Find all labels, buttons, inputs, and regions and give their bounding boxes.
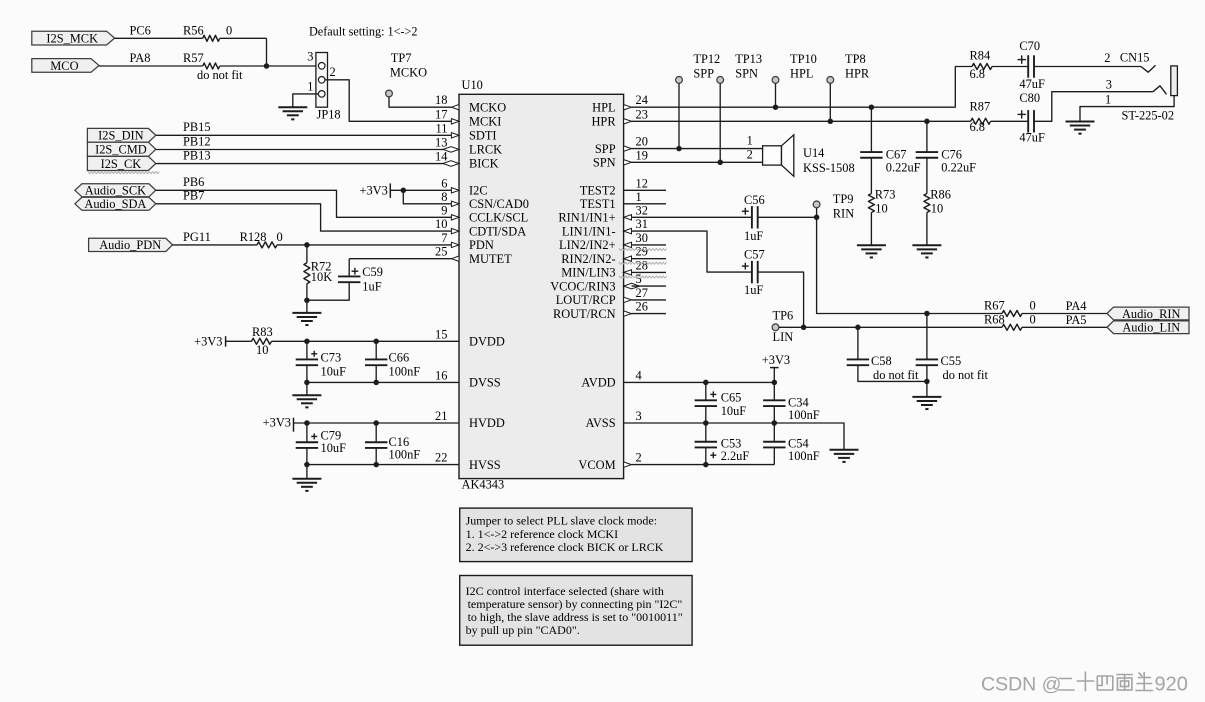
svg-text:HPR: HPR [591,115,616,129]
svg-text:CSDN @: CSDN @ [981,674,1061,696]
svg-text:+3V3: +3V3 [194,335,222,349]
svg-text:MCKI: MCKI [469,115,501,129]
test point TP10 [772,52,817,84]
svg-text:U10: U10 [462,78,483,92]
junction DVSS/C66 [373,380,379,386]
svg-text:by pull up pin "CAD0".: by pull up pin "CAD0". [466,623,580,637]
stub wire pin 1 [624,203,666,205]
wire +3V3 to R83 [226,340,252,342]
pin 26 ROUT/RCN [624,300,648,317]
wire PB13 [156,149,452,164]
svg-text:LIN1/IN1-: LIN1/IN1- [562,224,616,238]
svg-text:LIN: LIN [773,330,794,344]
junction AVDD/C34 [772,380,778,386]
net flag I2S_CK [87,156,155,170]
JP18 pin 2 label [330,65,336,79]
svg-text:HPR: HPR [845,66,870,80]
svg-text:MUTET: MUTET [469,252,512,266]
capacitor C57 [742,248,765,297]
svg-text:+3V3: +3V3 [263,416,291,430]
resistor R83 [252,325,273,357]
svg-text:ROUT/RCN: ROUT/RCN [553,307,616,321]
svg-text:MCO: MCO [50,59,78,73]
svg-text:SDTI: SDTI [469,129,497,143]
resistor R72 [304,260,332,284]
svg-text:TEST2: TEST2 [580,184,616,198]
svg-text:10: 10 [256,343,268,357]
wire R84 to C70 [992,66,1028,68]
pin 11 SDTI [435,121,459,138]
svg-text:18: 18 [435,93,447,107]
net flag Audio_SDA [75,197,156,211]
wire PC6 [115,37,203,39]
svg-text:R67: R67 [984,298,1005,312]
svg-text:TEST1: TEST1 [580,197,616,211]
svg-text:PC6: PC6 [130,23,151,37]
svg-text:47uF: 47uF [1019,130,1045,144]
svg-text:2: 2 [636,451,642,465]
junction DVDD/C73 [304,339,310,345]
svg-text:Audio_LIN: Audio_LIN [1122,321,1180,335]
capacitor C79 [296,423,346,465]
power +3V3 R83 [194,335,225,349]
junction VCOM/C53 [703,462,709,468]
wire LIN net [779,326,1002,328]
wire R73 to ground [870,213,872,246]
svg-text:Audio_RIN: Audio_RIN [1122,307,1181,321]
wire PB12 [156,134,452,149]
junction HPL/TP10 [773,104,779,110]
test point TP9 [813,192,854,220]
svg-text:MCKO: MCKO [390,66,427,80]
wire TP7 to U10 MCKO [389,97,451,107]
wire MUTET pin25 [349,258,451,260]
svg-text:Default setting: 1<->2: Default setting: 1<->2 [309,25,418,39]
svg-text:TP13: TP13 [735,52,762,66]
wire SPP to speaker [632,148,763,150]
svg-text:32: 32 [636,203,648,217]
label CN15 pin3 [1106,78,1112,92]
svg-text:1: 1 [1105,93,1111,107]
svg-text:PB6: PB6 [183,175,204,189]
svg-text:R68: R68 [984,312,1005,326]
pin 20 SPP [624,135,648,152]
wire R128 to PDN pin7 [277,244,451,246]
svg-text:2: 2 [1104,51,1110,65]
stub wire pin 26 [632,313,667,315]
svg-text:TP6: TP6 [773,309,794,323]
svg-text:+3V3: +3V3 [762,353,790,367]
junction LIN/C57 [801,325,807,331]
pin 16 DVSS [435,368,447,382]
resistor R128 [240,230,283,248]
svg-text:0: 0 [226,24,232,38]
pin 14 BICK [435,150,459,167]
test point TP6 [772,309,793,344]
svg-text:14: 14 [435,150,447,164]
ground AVSS [830,450,859,462]
no-connect squiggle pin 29 [619,262,667,264]
svg-text:10uF: 10uF [321,441,347,455]
pin 19 SPN [624,148,648,165]
wire HPR net [632,120,971,122]
capacitor C58 [847,327,927,382]
test point TP12 [676,52,721,84]
pin 7 PDN [441,231,459,248]
ground DVSS [292,395,321,407]
svg-text:25: 25 [435,245,447,259]
wire PDN junction down [306,245,308,263]
wire AVDD pin4 [624,381,775,383]
wire PG11 [173,230,258,245]
svg-text:9: 9 [441,203,447,217]
svg-text:PA5: PA5 [1066,313,1087,327]
pin 24 HPL [624,93,648,110]
svg-text:HVDD: HVDD [469,416,505,430]
resistor R67 [984,298,1036,316]
svg-text:TP7: TP7 [391,51,412,65]
power +3V3 HVDD [263,416,294,432]
svg-text:CN15: CN15 [1120,50,1150,64]
svg-text:Audio_SDA: Audio_SDA [84,197,146,211]
svg-text:PA4: PA4 [1066,299,1087,313]
svg-text:10: 10 [875,202,887,216]
wire R86 to ground [926,213,928,246]
pin 4 AVDD [636,368,642,382]
no-connect squiggle pin 28 [619,276,667,278]
wire JP18 pin1 to ground [293,94,319,107]
junction R56/R57 [264,63,270,69]
wire R87 to C80 [991,120,1028,122]
svg-text:R128: R128 [240,230,267,244]
svg-text:100nF: 100nF [788,449,820,463]
svg-text:C59: C59 [362,265,383,279]
junction DVSS/C73 [304,380,310,386]
svg-text:24: 24 [636,93,648,107]
resistor R56 [183,24,232,42]
svg-text:C55: C55 [941,354,962,368]
wire HVDD pin21 [294,422,460,424]
net flag Audio_LIN [1107,321,1189,335]
svg-text:5: 5 [636,272,642,286]
ground R86 [912,245,941,257]
net flag I2S_CMD [87,142,155,156]
wire C57 down to LIN [758,272,804,327]
svg-text:do not fit: do not fit [197,68,243,82]
wire HVSS to ground [306,465,308,479]
svg-text:I2C control interface selected: I2C control interface selected (share wi… [466,584,664,598]
resistor R68 [984,312,1036,330]
svg-text:13: 13 [435,135,447,149]
pin 9 CCLK/SCL [441,203,459,220]
svg-text:I2S_MCK: I2S_MCK [46,31,98,45]
svg-text:PDN: PDN [469,238,494,252]
svg-text:C67: C67 [886,148,907,162]
resistor R86 [924,188,951,216]
svg-text:JP18: JP18 [317,108,341,122]
pin 28 MIN/LIN3 [624,258,648,275]
note box I2C interface [460,576,692,646]
svg-text:PB15: PB15 [183,120,211,134]
svg-text:7: 7 [441,231,447,245]
capacitor C59 [307,259,383,301]
svg-text:VCOM: VCOM [578,458,615,472]
svg-text:31: 31 [636,217,648,231]
JP18 pin 3 label [307,50,313,64]
junction C58/C55 [924,379,930,385]
wire VCOM pin2 [632,464,775,466]
svg-text:+3V3: +3V3 [359,183,387,197]
svg-text:R83: R83 [252,325,273,339]
speaker U14 [763,135,855,177]
svg-text:0: 0 [1030,312,1036,326]
ground R73 [857,245,886,257]
capacitor C53 [695,423,750,465]
svg-text:PB12: PB12 [183,134,211,148]
svg-text:KSS-1508: KSS-1508 [803,161,855,175]
wire C70 to CN15 pin2 [1034,65,1155,72]
svg-text:C76: C76 [941,148,962,162]
svg-text:LRCK: LRCK [469,143,502,157]
net flag Audio_RIN [1107,307,1189,321]
label JP18 [317,108,341,122]
test point TP8 [827,52,870,84]
svg-text:6.8: 6.8 [970,120,986,134]
net flag MCO [32,59,99,73]
capacitor C67 [860,107,920,193]
svg-text:920: 920 [1155,674,1188,696]
svg-text:0: 0 [277,230,283,244]
svg-text:TP8: TP8 [845,52,866,66]
svg-text:1. 1<->2 reference clock MCKI: 1. 1<->2 reference clock MCKI [466,527,618,541]
svg-text:10: 10 [931,202,943,216]
label CN15 [1120,50,1150,64]
junction TP9/RIN [814,215,820,221]
pin 18 MCKO [435,93,459,110]
svg-text:1: 1 [636,190,642,204]
label CN15 pin1 [1105,93,1111,107]
svg-text:SPP: SPP [595,142,616,156]
svg-text:15: 15 [435,327,447,341]
test point TP13 [717,52,762,84]
svg-text:21: 21 [435,409,447,423]
svg-text:DVSS: DVSS [469,376,501,390]
wire RIN1 pin32 to C56 [632,216,752,218]
svg-text:30: 30 [636,231,648,245]
svg-text:I2S_CK: I2S_CK [101,157,142,171]
watermark CSDN [981,672,1188,696]
svg-text:10uF: 10uF [721,404,747,418]
pin 25 MUTET [435,245,459,262]
wire HPL net [632,67,973,108]
pin 6 I2C [441,176,459,193]
svg-text:0.22uF: 0.22uF [941,161,976,175]
svg-text:I2S_CMD: I2S_CMD [95,143,147,157]
svg-text:2. 2<->3 reference clock BICK: 2. 2<->3 reference clock BICK or LRCK [466,540,664,554]
pin 3 AVSS [636,409,642,423]
svg-text:CSN/CAD0: CSN/CAD0 [469,197,529,211]
junction HPR/TP8 [828,119,834,125]
svg-text:C66: C66 [389,351,410,365]
svg-text:R87: R87 [970,100,991,114]
svg-text:6: 6 [441,176,447,190]
svg-text:Audio_SCK: Audio_SCK [85,184,146,198]
svg-text:DVDD: DVDD [469,335,505,349]
svg-text:1uF: 1uF [744,283,763,297]
wire C56 to TP9 node [758,216,817,218]
ground CN15 [1066,122,1095,134]
wire PB7 [156,189,452,231]
svg-text:SPN: SPN [735,66,758,80]
note box PLL jumper [460,508,692,561]
net flag Audio_PDN [89,238,173,252]
svg-text:I2C: I2C [469,184,488,198]
svg-text:17: 17 [435,107,447,121]
svg-text:TP9: TP9 [833,192,854,206]
wire R68 to PA5 [1022,313,1107,327]
connector CN15 jack body [1171,66,1178,96]
svg-text:HPL: HPL [592,100,615,114]
label speaker pin1 [747,133,753,147]
pin 21 HVDD [435,409,447,423]
svg-text:16: 16 [435,368,447,382]
svg-text:1uF: 1uF [744,229,763,243]
pin 2 VCOM [624,451,642,468]
svg-text:AK4343: AK4343 [462,478,505,492]
ground C55 [912,397,941,409]
net flag I2S_DIN [87,128,155,142]
wire +3V3 to I2C pin6 [390,189,451,191]
ground JP18 [278,107,307,119]
resistor R84 [970,49,993,81]
wire C80 to CN15 pin3 [1034,86,1166,122]
svg-text:23: 23 [636,107,648,121]
pin 10 CDTI/SDA [435,217,459,234]
svg-text:2.2uF: 2.2uF [721,449,750,463]
svg-text:100nF: 100nF [389,448,421,462]
svg-text:R86: R86 [930,188,951,202]
stub wire pin 12 [624,189,666,191]
svg-text:11: 11 [435,121,447,135]
wire HVSS pin22 [307,464,459,466]
wire R56 to junction [220,38,267,66]
svg-text:47uF: 47uF [1019,77,1045,91]
junction PDN/R72 [304,242,310,248]
svg-text:6.8: 6.8 [970,67,986,81]
wire DVSS pin16 [307,381,459,383]
svg-text:19: 19 [636,148,648,162]
ground R72 [292,313,321,325]
svg-text:TP10: TP10 [790,52,817,66]
wire PB6 [156,175,452,217]
svg-text:R56: R56 [183,24,204,38]
svg-text:VCOC/RIN3: VCOC/RIN3 [550,279,615,293]
wire R67 to PA4 [1022,299,1107,314]
power +3V3 I2C [359,183,390,198]
wire R83 to DVDD pin15 [272,340,460,342]
svg-text:SPN: SPN [593,156,616,170]
label U10 [462,78,483,92]
svg-text:LOUT/RCP: LOUT/RCP [556,293,616,307]
pin 5 VCOC/RIN3 [624,272,642,289]
svg-text:R57: R57 [183,51,204,65]
svg-text:HPL: HPL [790,66,813,80]
svg-text:PA8: PA8 [130,51,151,65]
svg-text:MIN/LIN3: MIN/LIN3 [561,266,615,280]
junction AVSS/C65 [703,420,709,426]
pin 17 MCKI [435,107,459,124]
pin 8 CSN/CAD0 [441,190,459,207]
capacitor C66 [365,341,420,382]
wire R72 to ground node [306,284,308,313]
svg-text:C57: C57 [744,248,765,262]
junction DVDD/C66 [373,339,379,345]
capacitor C80 [1018,91,1045,144]
connector JP18 body [316,53,328,108]
wire R57 to JP18 pin3 [220,65,319,67]
svg-text:C58: C58 [871,354,892,368]
ground HVSS [292,479,321,491]
svg-text:CDTI/SDA: CDTI/SDA [469,224,526,238]
wire JP18 pin2 to U10 MCKI [325,80,452,122]
junction TP12/SPP [676,146,682,152]
JP18 pin 1 label [307,79,313,93]
wire SPN to speaker [632,161,763,163]
capacitor C54 [763,423,820,465]
shadow squiggle I2S flags [88,172,159,174]
pin 13 LRCK [435,135,459,152]
svg-text:10: 10 [435,217,447,231]
svg-text:AVDD: AVDD [581,376,615,390]
svg-text:28: 28 [636,258,648,272]
svg-text:10uF: 10uF [321,364,347,378]
net flag I2S_MCK [32,31,115,45]
svg-text:HVSS: HVSS [469,458,501,472]
capacitor C55 [916,314,989,397]
wire AVSS pin3 [624,423,844,450]
junction R72/C59 [304,298,310,304]
junction HVSS/C16 [373,462,379,468]
pin 30 LIN2/IN2+ [624,231,648,248]
junction AVSS/C34 [772,420,778,426]
wire TP13 to SPN [719,83,721,162]
pin 27 LOUT/RCP [624,286,648,303]
junction RIN/C55 [924,311,930,317]
svg-text:1: 1 [307,79,313,93]
pin 29 RIN2/IN2- [624,245,648,262]
svg-text:RIN: RIN [833,207,854,221]
junction HVDD/C79 [304,420,310,426]
svg-text:1uF: 1uF [362,279,381,293]
svg-text:100nF: 100nF [389,364,421,378]
svg-text:1: 1 [747,133,753,147]
svg-text:PB7: PB7 [183,189,204,203]
capacitor C70 [1018,39,1045,91]
test point TP7 [386,51,428,97]
wire TP12 to SPP [678,83,680,148]
svg-text:100nF: 100nF [788,408,820,422]
resistor R57 [183,51,243,82]
junction +3V3 pins 6-8 [401,188,407,194]
wire PA8 [99,65,203,67]
svg-text:I2S_DIN: I2S_DIN [98,129,143,143]
svg-text:TP12: TP12 [693,52,720,66]
resistor R73 [868,188,895,216]
stub wire pin 28 [632,271,667,273]
capacitor C34 [763,382,820,423]
svg-text:0: 0 [1030,298,1036,312]
wire PB15 [156,120,452,135]
